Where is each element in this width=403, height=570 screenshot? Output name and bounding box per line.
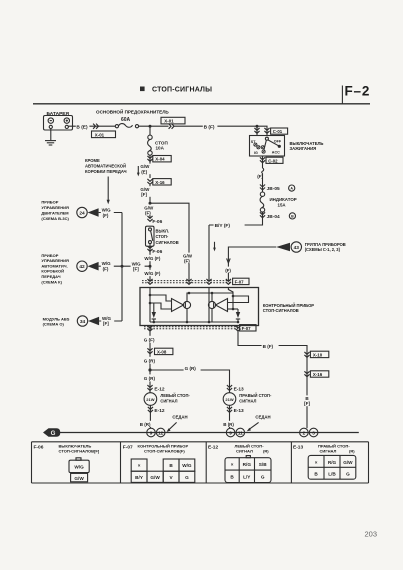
svg-text:СИГНАЛ: СИГНАЛ <box>160 398 177 403</box>
svg-text:СТОП-: СТОП- <box>156 234 169 239</box>
svg-text:2: 2 <box>303 430 306 435</box>
svg-text:СТОП-СИГНАЛОВ(F): СТОП-СИГНАЛОВ(F) <box>144 448 185 453</box>
wire fuse to X-04 <box>149 155 151 178</box>
table F-06 connector pins <box>69 458 89 482</box>
wire Q1 emitter <box>186 309 188 322</box>
control unit U1 box <box>140 288 259 326</box>
ground <box>45 141 56 145</box>
wire Q2 emitter <box>211 309 213 322</box>
title СТОП-СИГНАЛЫ <box>152 87 212 94</box>
wire comparator upper input <box>150 295 172 301</box>
label ПРИБОР УПРАВЛЕНИЯ АКПП <box>41 253 69 285</box>
svg-text:B: B <box>169 463 173 468</box>
svg-text:G (R): G (R) <box>144 376 156 381</box>
connector X-01b symbol <box>169 124 174 129</box>
connector F-06 lower label <box>152 249 162 255</box>
wire to ignition switch <box>174 125 257 127</box>
node 42 circle <box>77 261 87 271</box>
wire battery to ground <box>50 129 52 141</box>
svg-text:[F]: [F] <box>304 401 310 406</box>
svg-text:G/W: G/W <box>150 475 160 480</box>
label W/G [F] bus <box>131 261 145 272</box>
svg-text:24: 24 <box>79 210 85 216</box>
wire lamp right to ground <box>229 405 231 428</box>
connector C-01 label <box>271 128 288 134</box>
connector F-07 top label <box>233 278 249 284</box>
svg-text:(R): (R) <box>349 448 355 453</box>
svg-text:F-06: F-06 <box>152 249 162 255</box>
svg-text:9: 9 <box>229 430 232 435</box>
svg-text:ЗАЖИГАНИЯ: ЗАЖИГАНИЯ <box>290 146 317 151</box>
connector E-13 lower symbol <box>227 407 232 412</box>
svg-text:(СХЕМА К): (СХЕМА К) <box>41 279 62 284</box>
label КОНТРОЛЬНЫЙ ПРИБОР СТОП-СИГНАЛОВ <box>263 303 314 313</box>
connector JB-05 symbol <box>260 185 265 190</box>
svg-text:ПЕРЕДАЧ: ПЕРЕДАЧ <box>41 274 60 279</box>
label G/W (F) branch <box>182 253 195 264</box>
svg-text:IG: IG <box>254 151 258 155</box>
svg-text:15A: 15A <box>278 202 287 207</box>
svg-text:B: B <box>314 472 318 477</box>
label B (E) <box>76 123 90 131</box>
junction node ignition <box>256 125 259 128</box>
label G/W [F] <box>140 186 152 197</box>
connector E-13 upper symbol <box>227 385 232 390</box>
connector JB-04 symbol <box>260 212 265 217</box>
connector F-07 top dashed row <box>142 281 231 283</box>
table F-06 header <box>34 444 100 454</box>
ground point 3 <box>309 428 318 437</box>
svg-text:СТОП-СИГНАЛОВ: СТОП-СИГНАЛОВ <box>263 308 299 313</box>
wire U1 B output to right <box>238 331 307 428</box>
svg-text:КОРОБКОЙ: КОРОБКОЙ <box>41 269 64 274</box>
connector X-04 symbol <box>147 156 152 161</box>
svg-text:КРОМЕ: КРОМЕ <box>85 158 100 163</box>
arrow to ABS module <box>88 317 99 326</box>
label 60A <box>121 117 131 123</box>
svg-text:3: 3 <box>312 430 315 435</box>
node 24 circle <box>77 207 87 217</box>
svg-text:СТОП-СИГНАЛЫ: СТОП-СИГНАЛЫ <box>152 87 212 94</box>
node rail left <box>153 321 156 324</box>
svg-text:X-01: X-01 <box>164 119 174 124</box>
svg-text:УПРАВЛЕНИЯ: УПРАВЛЕНИЯ <box>41 258 69 263</box>
svg-text:G: G <box>261 474 265 479</box>
ground symbol G <box>43 428 60 437</box>
wire U1 to lamps (G) <box>149 326 151 393</box>
label КРОМЕ АВТОМАТИЧЕСКОЙ КОРОБКИ ПЕРЕДАЧ <box>85 158 127 174</box>
wire arrow34 to bus <box>99 320 122 322</box>
svg-text:(F): (F) <box>103 266 109 271</box>
label W/G (F) below junction <box>144 270 166 276</box>
label (F) cluster <box>224 267 232 273</box>
svg-text:W/G (F): W/G (F) <box>144 271 160 276</box>
label ИНДИКАТОР 15A <box>270 197 297 207</box>
svg-text:12: 12 <box>158 430 164 435</box>
svg-text:B (F): B (F) <box>263 344 274 349</box>
lamp left 21W <box>144 393 157 406</box>
svg-text:C-01: C-01 <box>273 129 283 134</box>
svg-text:JB-04: JB-04 <box>267 214 280 220</box>
svg-text:W/G (F): W/G (F) <box>144 256 160 261</box>
svg-text:G (F): G (F) <box>144 338 155 343</box>
connector X-08 symbol <box>147 348 152 353</box>
svg-text:JB-05: JB-05 <box>267 186 280 192</box>
diode D2 <box>236 309 240 322</box>
svg-text:МОДУЛЬ ABS: МОДУЛЬ ABS <box>43 316 70 321</box>
connector X-10 symbol <box>304 352 309 357</box>
node 34 circle <box>77 316 87 326</box>
wire cluster inside jog <box>228 288 233 310</box>
connector X-16b label <box>310 371 328 377</box>
svg-text:G/W: G/W <box>343 460 353 465</box>
svg-text:B: B <box>230 474 234 479</box>
wire U1 left input <box>149 288 151 323</box>
label G (R) upper <box>143 357 158 364</box>
op-amp A1 <box>172 299 184 312</box>
junction node bus <box>121 265 124 268</box>
label B (R) right <box>222 421 236 427</box>
wire kink <box>262 168 264 173</box>
svg-text:G (R): G (R) <box>144 359 156 364</box>
svg-text:F-06: F-06 <box>34 445 44 451</box>
table F-07 pins <box>131 459 195 482</box>
connector X-16 label <box>153 179 171 185</box>
label СЕДАН right <box>255 414 270 419</box>
svg-text:СТОП-СИГНАЛОВ[F]: СТОП-СИГНАЛОВ[F] <box>59 448 100 453</box>
label G (F) <box>143 336 158 343</box>
arrow to engine control <box>88 208 99 217</box>
lamp right 21W <box>223 393 236 406</box>
svg-text:(E): (E) <box>141 169 148 174</box>
svg-text:203: 203 <box>365 530 378 539</box>
connector E-12 lower symbol <box>148 407 153 412</box>
svg-text:G: G <box>185 475 189 480</box>
svg-text:B (R): B (R) <box>140 422 151 427</box>
svg-text:B/Y: B/Y <box>135 475 144 480</box>
node right net upper <box>232 295 235 298</box>
table E-13 pins <box>308 455 356 479</box>
node Q2 collector rail <box>211 292 214 295</box>
svg-text:[F]: [F] <box>133 267 139 272</box>
svg-text:B/Y (F): B/Y (F) <box>215 223 231 229</box>
connector F-06 upper label <box>152 219 162 225</box>
svg-text:A: A <box>290 187 293 191</box>
ground point 9 right <box>226 428 235 437</box>
svg-text:X-16: X-16 <box>155 180 165 185</box>
svg-text:C-02: C-02 <box>268 158 278 163</box>
connector C-02 label <box>266 157 283 163</box>
svg-text:B (R): B (R) <box>223 422 234 427</box>
ground point 2 <box>300 428 309 437</box>
connector X-01 label <box>92 131 116 138</box>
svg-text:G (R): G (R) <box>185 366 197 371</box>
svg-text:V: V <box>170 475 174 480</box>
label ГРУППА ПРИБОРОВ <box>305 242 346 252</box>
wire JB-04 down and left <box>209 212 263 225</box>
svg-text:F–2: F–2 <box>345 84 371 99</box>
label ВЫКЛЮЧАТЕЛЬ ЗАЖИГАНИЯ <box>290 141 324 151</box>
svg-text:СИГНАЛ: СИГНАЛ <box>236 448 253 453</box>
top rule <box>33 103 370 105</box>
junction node B <box>149 125 152 128</box>
svg-text:ST: ST <box>251 140 256 144</box>
svg-text:(СХЕМА В-3С): (СХЕМА В-3С) <box>41 216 69 221</box>
node Q1 emitter rail <box>186 321 189 324</box>
page number 203 <box>365 530 378 539</box>
flow arrow B/Y <box>213 242 216 252</box>
svg-text:СЕДАН: СЕДАН <box>255 414 270 419</box>
wire ignition out <box>262 156 264 168</box>
connector E-13 upper label <box>234 387 244 393</box>
svg-text:G/W: G/W <box>74 476 84 481</box>
svg-text:ОСНОВНОЙ ПРЕДОХРАНИТЕЛЬ: ОСНОВНОЙ ПРЕДОХРАНИТЕЛЬ <box>96 108 169 115</box>
wire branch to right lamp <box>150 370 230 393</box>
svg-text:R/G: R/G <box>328 460 337 465</box>
svg-text:СИГНАЛ: СИГНАЛ <box>320 448 337 453</box>
svg-text:[F]: [F] <box>103 321 109 326</box>
ground point 9 left <box>147 428 156 437</box>
main fuse 60A <box>115 124 138 128</box>
junction node G/W <box>149 202 152 205</box>
wire cluster line <box>228 247 276 282</box>
junction node W/G <box>149 265 152 268</box>
title square bullet <box>140 87 145 92</box>
svg-text:G: G <box>346 472 350 477</box>
wire branch to control unit G/W input <box>150 203 189 281</box>
node B/Y rail <box>208 321 211 324</box>
label СЕДАН left <box>172 414 187 419</box>
svg-text:21W: 21W <box>225 397 233 402</box>
label B [F] <box>303 395 312 406</box>
svg-text:УПРАВЛЕНИЯ: УПРАВЛЕНИЯ <box>41 205 69 210</box>
page code tick line <box>341 86 343 104</box>
svg-text:АВТОМАТИЧЕСКОЙ: АВТОМАТИЧЕСКОЙ <box>85 163 126 168</box>
wire arrow24 to bus <box>99 212 122 214</box>
svg-text:СТОП: СТОП <box>155 140 168 145</box>
flow arrow near X-16 <box>137 166 140 176</box>
wire arrow42 to bus <box>99 265 122 267</box>
connector X-01b label <box>161 117 185 124</box>
wire comparator lower input <box>150 303 172 309</box>
arrow СЕДАН left <box>167 422 177 432</box>
node rail G/W entry <box>188 292 191 295</box>
svg-text:×: × <box>138 463 141 468</box>
label W/G (F) above junction <box>144 255 166 261</box>
connector C-02 symbol <box>260 157 265 162</box>
svg-text:F-07: F-07 <box>235 280 245 285</box>
svg-text:E-12: E-12 <box>154 387 164 393</box>
label B (F) right <box>262 342 279 349</box>
svg-text:60A: 60A <box>121 117 131 123</box>
label W/G (F) row24 <box>101 207 114 218</box>
ignition switch SW <box>250 136 285 157</box>
label G/W (E) <box>140 164 152 175</box>
wire right net lower <box>228 308 239 310</box>
diode D1 <box>152 303 156 322</box>
connector F-07 bottom symbols <box>147 326 240 331</box>
svg-text:W/G: W/G <box>74 464 84 469</box>
svg-text:СЕДАН: СЕДАН <box>172 414 187 419</box>
connector E-12 upper label <box>154 387 164 393</box>
wire battery to fuse (B wire) <box>68 125 115 127</box>
wire right net upper loop <box>228 296 249 303</box>
page code F-2 <box>345 84 371 99</box>
arrow to AT control <box>88 262 99 271</box>
battery label БАТАРЕЯ <box>47 111 70 117</box>
junction node G <box>148 368 151 371</box>
connector JB-05 label <box>267 185 295 192</box>
label G (R) lower <box>143 374 158 381</box>
wire to JB-05 <box>262 173 264 192</box>
ground bus wire <box>60 432 359 434</box>
wire B/Y down to control unit <box>208 225 210 282</box>
ground point 11 <box>236 428 245 437</box>
fuse СТОП 10A <box>148 135 153 155</box>
svg-text:АВТОМАТИЧ.: АВТОМАТИЧ. <box>41 263 67 268</box>
svg-text:ДВИГАТЕЛЕМ: ДВИГАТЕЛЕМ <box>41 210 69 215</box>
bottom rail inside U1 <box>150 321 238 323</box>
node U1 b <box>149 302 152 305</box>
label (F) ignition <box>257 174 263 179</box>
svg-text:X-01: X-01 <box>95 132 105 137</box>
svg-text:СИГНАЛОВ: СИГНАЛОВ <box>156 240 179 245</box>
svg-text:R/G: R/G <box>243 462 252 467</box>
label W/G [F] row34 <box>101 315 114 326</box>
label СТОП 10A <box>155 140 168 150</box>
table E-13 header <box>293 444 355 454</box>
wire Q2 collector <box>211 293 213 301</box>
wire lamp left to ground <box>149 405 151 428</box>
svg-text:X-10: X-10 <box>313 352 323 357</box>
node rail right <box>237 321 240 324</box>
svg-text:×: × <box>231 462 234 467</box>
connector E-13 lower label <box>234 408 244 414</box>
W/G bus vertical wire <box>121 213 123 322</box>
connector E-12 lower label <box>154 408 164 414</box>
svg-text:11: 11 <box>238 430 243 435</box>
connector F-07 bottom dashed row <box>144 327 238 329</box>
wire Q1 collector to top rail <box>187 293 233 301</box>
svg-text:42: 42 <box>79 264 85 270</box>
table E-12 header <box>208 444 269 454</box>
svg-text:КОРОБКИ ПЕРЕДАЧ: КОРОБКИ ПЕРЕДАЧ <box>85 169 127 174</box>
arrowhead on cluster wire <box>227 258 231 263</box>
svg-text:×: × <box>315 460 318 465</box>
arrow to instrument cluster <box>276 243 290 251</box>
svg-text:OFF: OFF <box>274 139 282 143</box>
battery BT <box>44 116 73 131</box>
connector X-16b symbol <box>304 371 309 376</box>
svg-text:(СХЕМЫ С-1, 2, 3): (СХЕМЫ С-1, 2, 3) <box>305 247 341 252</box>
svg-text:СИГНАЛ: СИГНАЛ <box>239 398 256 403</box>
svg-text:X-04: X-04 <box>155 157 165 162</box>
connector X-10 label <box>310 351 328 357</box>
transistor Q2 <box>208 301 215 308</box>
svg-text:F-07: F-07 <box>242 326 252 331</box>
wire X-16 to junction <box>149 185 151 218</box>
svg-text:21W: 21W <box>146 397 154 402</box>
svg-text:X-16: X-16 <box>313 372 323 377</box>
svg-text:ПРИБОР: ПРИБОР <box>41 253 58 258</box>
label B/Y (F) <box>214 221 245 229</box>
svg-text:B: B <box>291 215 294 219</box>
label ПРАВЫЙ СТОП-СИГНАЛ <box>239 393 272 403</box>
svg-text:L/Y: L/Y <box>243 474 251 479</box>
svg-text:E-13: E-13 <box>293 445 303 451</box>
connector F-06 upper symbol <box>147 216 152 221</box>
table frame <box>32 442 369 483</box>
label ПРИБОР УПРАВЛЕНИЯ ДВИГАТЕЛЕМ <box>41 200 69 221</box>
svg-text:G: G <box>51 430 56 437</box>
connector X-16 symbol <box>147 179 152 184</box>
wire B/Y inside <box>208 288 210 323</box>
svg-text:X-08: X-08 <box>157 349 167 354</box>
connector X-08 label <box>155 348 173 354</box>
label МОДУЛЬ ABS <box>43 316 70 326</box>
annotation arrow except-AT <box>107 177 110 205</box>
svg-text:(F): (F) <box>184 258 190 263</box>
connector JB-04 label <box>267 213 296 220</box>
svg-text:(F): (F) <box>103 213 109 218</box>
svg-text:F-06: F-06 <box>152 219 162 225</box>
wire to ignition pins <box>257 126 267 135</box>
svg-text:F-07: F-07 <box>123 445 133 451</box>
svg-text:(F): (F) <box>225 268 231 273</box>
label B (R) left <box>139 421 153 427</box>
svg-text:34: 34 <box>80 319 86 325</box>
svg-text:E-12: E-12 <box>208 445 218 451</box>
connector F-06 lower symbol <box>147 243 152 281</box>
svg-text:S/B: S/B <box>259 462 267 467</box>
label ЛЕВЫЙ СТОП-СИГНАЛ <box>160 393 190 403</box>
svg-text:ИНДИКАТОР: ИНДИКАТОР <box>270 197 297 202</box>
wire fuse to junction <box>139 125 169 127</box>
node U1 a <box>149 294 152 297</box>
connector E-12 upper symbol <box>147 385 152 390</box>
connector F-07 top symbols <box>147 279 231 284</box>
table E-12 pins <box>225 456 271 483</box>
svg-text:10A: 10A <box>156 146 165 151</box>
label B (F) top <box>203 123 218 131</box>
node 43 circle <box>291 242 301 252</box>
label W/G (F) row42 <box>101 260 114 271</box>
svg-text:E-13: E-13 <box>234 387 244 393</box>
connector X-01 symbol <box>93 124 98 129</box>
svg-text:9: 9 <box>150 430 153 435</box>
label G/W (F) above F-06 <box>143 205 156 216</box>
svg-text:(СХЕМА О): (СХЕМА О) <box>43 322 65 327</box>
fuse ИНДИКАТОР 15A <box>260 192 265 212</box>
svg-text:L/B: L/B <box>328 472 336 477</box>
connector F-07 bottom label <box>240 325 256 331</box>
svg-text:ПРИБОР: ПРИБОР <box>41 200 58 205</box>
table F-07 header <box>123 444 189 454</box>
node right net lower <box>232 308 235 311</box>
wire W/G bus to switch chain <box>122 265 150 267</box>
connector C-01 symbols <box>254 128 269 133</box>
svg-text:(F): (F) <box>145 210 151 215</box>
brake light switch SW <box>146 226 155 246</box>
stop fuse drop wire <box>149 126 151 135</box>
svg-text:43: 43 <box>294 245 300 251</box>
label ВЫКЛ. СТОП-СИГНАЛОВ <box>156 228 179 244</box>
ground point 12 <box>156 428 165 437</box>
label ОСНОВНОЙ ПРЕДОХРАНИТЕЛЬ <box>96 108 169 115</box>
label G (R) branch <box>184 364 201 371</box>
svg-text:ВЫКЛ.: ВЫКЛ. <box>156 228 169 233</box>
svg-text:B (F): B (F) <box>204 124 215 130</box>
